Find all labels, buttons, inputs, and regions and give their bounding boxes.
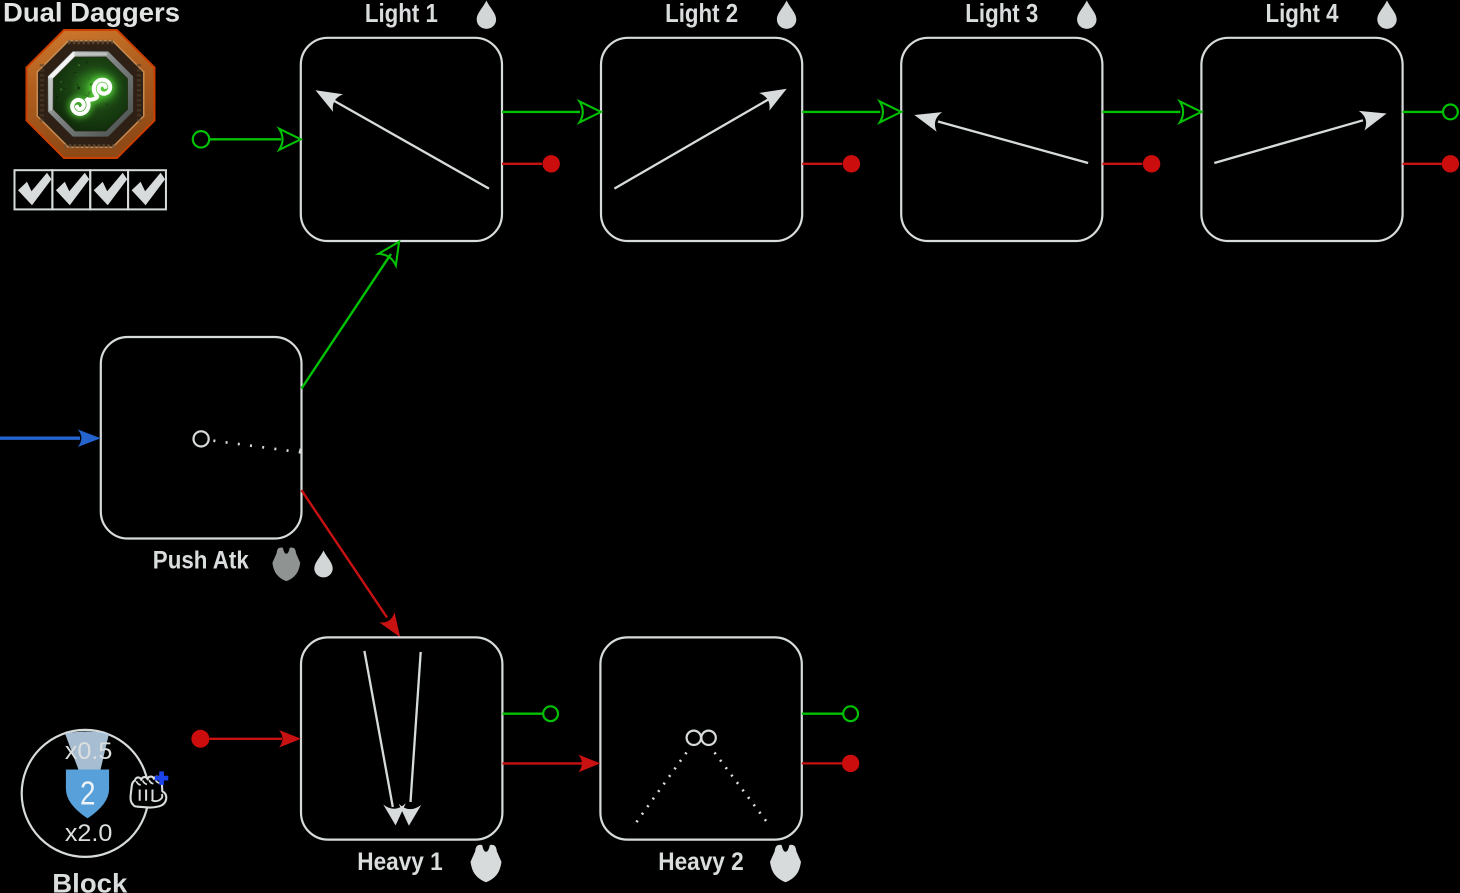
svg-text:Dual Daggers: Dual Daggers (3, 0, 180, 28)
red fail stub Light 2 (802, 163, 842, 165)
node Light 1 (301, 38, 502, 241)
svg-text:Light 1: Light 1 (365, 0, 438, 28)
inner stab arrows Heavy 1 (364, 651, 392, 807)
svg-text:Push Atk: Push Atk (153, 547, 249, 575)
node Light 2 (601, 38, 802, 241)
metal bevel ring (51, 54, 131, 134)
vest icon Heavy 1 (471, 845, 502, 882)
node Push Atk (101, 337, 302, 539)
wire blue entry into Push Atk (0, 437, 80, 440)
entry connector circle (193, 131, 209, 147)
wire entry to Light 1 (209, 138, 281, 140)
spiral sigil (72, 80, 110, 114)
node Light 3 (901, 38, 1102, 241)
red fail stub Light 4 (1403, 163, 1442, 165)
green out stub Heavy 1 (502, 713, 543, 715)
green out stub Light 4 (1403, 111, 1444, 113)
svg-text:Light 3: Light 3 (965, 0, 1038, 28)
svg-text:x0.5: x0.5 (65, 738, 113, 765)
block-damage vest icon Push Atk (272, 547, 300, 581)
svg-text:Light 2: Light 2 (665, 0, 738, 28)
red fail stub Heavy 2 (802, 762, 842, 764)
wire Heavy 1 to Heavy 2 (red) (502, 762, 582, 764)
block fan (damage cone) (65, 732, 109, 770)
stamina drop icon Light 1 (477, 1, 496, 29)
svg-text:Light 4: Light 4 (1266, 0, 1339, 28)
inner graphic Push Atk: circle + dotted push line (194, 431, 209, 446)
stamina drop icon Light 3 (1077, 1, 1096, 29)
node Light 4 (1201, 38, 1402, 241)
inner graphic Heavy 2: grip circles + dotted arc (687, 731, 701, 745)
wire Push Atk to Light 1 (green) (302, 254, 392, 389)
svg-text:x2.0: x2.0 (65, 820, 113, 847)
wire red entry into Heavy 1 (209, 738, 282, 740)
green out stub Heavy 2 (802, 713, 843, 715)
red fail stub Light 3 (1102, 163, 1142, 165)
svg-text:Heavy 1: Heavy 1 (357, 848, 443, 876)
inner swing arrow Light 3 (938, 122, 1088, 164)
wire Light 3 to Light 4 green (1102, 111, 1180, 113)
wire Light 2 to Light 3 green (802, 111, 880, 113)
wire Push Atk to Heavy 1 (red) (302, 490, 388, 617)
fist icon with plus (131, 771, 169, 807)
stamina drop icon Light 4 (1377, 1, 1396, 29)
node Heavy 1 (301, 637, 502, 839)
wire Light 1 to Light 2 green (502, 111, 580, 113)
inner swing arrow Light 4 (1214, 120, 1363, 163)
inner swing arrow Light 1 (332, 100, 489, 189)
inner swing arrow Light 2 (614, 99, 770, 189)
red entry dot into Heavy 1 (191, 730, 209, 748)
svg-text:Block: Block (52, 868, 128, 893)
vest icon Heavy 2 (770, 845, 801, 882)
gem texture speckles (56, 61, 108, 118)
block shield (66, 770, 109, 819)
red fail stub Light 1 (502, 163, 542, 165)
stamina drop icon Light 2 (777, 1, 796, 29)
svg-text:2: 2 (80, 776, 96, 813)
Block circle (22, 730, 149, 857)
stamina drop icon Push Atk (314, 551, 332, 578)
node Heavy 2 (600, 637, 801, 839)
rune band marks (68, 40, 113, 45)
svg-text:Heavy 2: Heavy 2 (658, 848, 744, 876)
checkbox row (4 checks) (15, 170, 166, 209)
green gem center (54, 57, 128, 131)
weapon icon octagon frame (26, 29, 156, 159)
